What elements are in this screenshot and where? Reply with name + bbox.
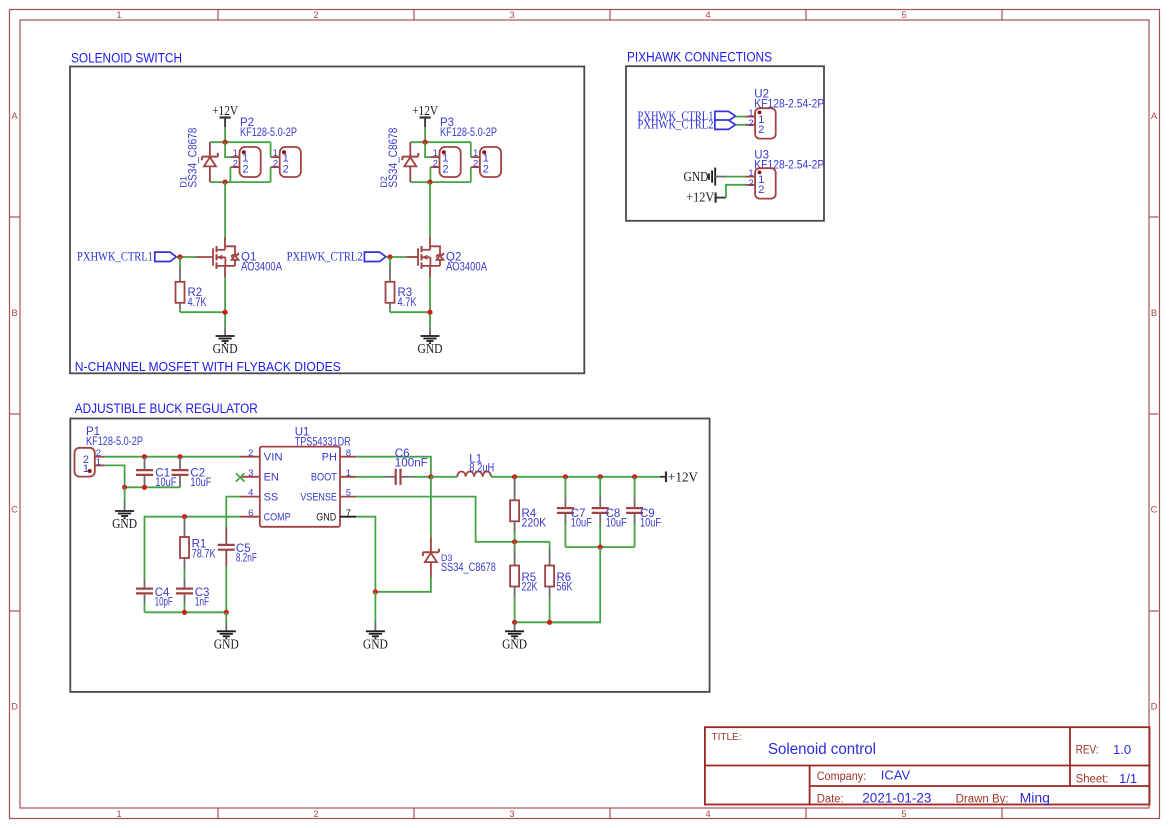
svg-text:VIN: VIN bbox=[264, 452, 283, 464]
svg-text:A: A bbox=[11, 111, 18, 122]
svg-text:8.2nF: 8.2nF bbox=[236, 552, 257, 564]
net flag PXHWK_CTRL2 bbox=[287, 250, 386, 264]
wire R3 to source 2 bbox=[390, 308, 430, 312]
ground GND (compensation) bbox=[214, 612, 239, 651]
capacitor C2 10uF bbox=[172, 457, 212, 489]
wire flag1 to U2 pin1 bbox=[736, 116, 746, 118]
svg-text:KF128-5.0-2P: KF128-5.0-2P bbox=[440, 127, 497, 139]
svg-text:220K: 220K bbox=[522, 517, 547, 529]
wire R6 to gnd bus bbox=[549, 598, 551, 623]
label P1 KF128-5.0-2P bbox=[86, 426, 143, 448]
wire node to D3 bbox=[430, 477, 432, 537]
svg-text:KF128-2.54-2P: KF128-2.54-2P bbox=[754, 160, 824, 172]
ground GND (divider) bbox=[502, 622, 527, 651]
svg-text:10uF: 10uF bbox=[190, 477, 211, 489]
svg-text:10uF: 10uF bbox=[640, 517, 661, 529]
svg-text:PXHWK_CTRL2: PXHWK_CTRL2 bbox=[638, 118, 714, 132]
resistor R3 4.7K bbox=[386, 266, 417, 309]
svg-text:ICAV: ICAV bbox=[881, 768, 911, 783]
pin 8 PH bbox=[322, 448, 357, 464]
node R5 bottom bbox=[512, 620, 517, 625]
svg-text:B: B bbox=[1151, 308, 1157, 319]
svg-text:COMP: COMP bbox=[264, 512, 291, 524]
wire plugA pin1 1 bbox=[225, 142, 230, 157]
svg-text:4: 4 bbox=[705, 809, 710, 820]
svg-text:SS34_C8678: SS34_C8678 bbox=[188, 128, 200, 188]
svg-text:4: 4 bbox=[248, 488, 253, 499]
wire C8 node to gnd bus bbox=[550, 547, 601, 622]
svg-text:2: 2 bbox=[248, 448, 253, 459]
wire COMP left bbox=[145, 517, 241, 579]
wire VSENSE to divider bbox=[356, 497, 549, 542]
node C1 top bbox=[142, 454, 147, 459]
svg-text:2: 2 bbox=[442, 163, 448, 175]
net flag PXHWK_CTRL1 bbox=[77, 250, 176, 264]
svg-text:2: 2 bbox=[273, 158, 278, 169]
node P1 gnd junction bbox=[122, 485, 127, 490]
wire PH to node bbox=[356, 457, 431, 477]
svg-text:78.7K: 78.7K bbox=[192, 549, 216, 561]
wire source 1 bbox=[224, 277, 226, 327]
node source junction 2 bbox=[427, 310, 432, 315]
ground GND (pixhawk, sideways) bbox=[684, 168, 727, 186]
wire gate down 1 bbox=[179, 257, 181, 266]
wire flag2 to U2 pin2 bbox=[736, 124, 746, 126]
net flag PXHWK_CTRL1 (pixhawk) bbox=[638, 109, 736, 123]
wire bottom rail 1 bbox=[210, 181, 271, 183]
svg-text:10uF: 10uF bbox=[571, 517, 592, 529]
resistor R6 56K bbox=[545, 542, 573, 598]
title block bbox=[705, 727, 1150, 805]
wire C3 down bbox=[184, 603, 186, 613]
svg-text:1: 1 bbox=[346, 468, 351, 479]
node C3 bottom bbox=[182, 610, 187, 615]
op-amp U1 TPS54331DR body bbox=[260, 427, 351, 527]
node C2 top bbox=[177, 454, 182, 459]
node R4 top bbox=[512, 474, 517, 479]
wire C1 C2 bottom bbox=[125, 486, 180, 488]
svg-text:SS34_C8678: SS34_C8678 bbox=[441, 562, 496, 574]
wire plugB pin1 1 bbox=[270, 142, 272, 157]
capacitor C5 8.2nF bbox=[218, 527, 257, 566]
svg-text:Ming: Ming bbox=[1020, 790, 1050, 806]
wire gate down 2 bbox=[389, 257, 391, 266]
wire plugA pin2 1 bbox=[229, 167, 231, 182]
ground GND (circuit 1) bbox=[213, 327, 238, 356]
pin 2 VIN bbox=[240, 448, 282, 464]
svg-text:3: 3 bbox=[509, 10, 514, 21]
wire R4 to vsense node bbox=[514, 532, 516, 542]
node gate junction 2 bbox=[387, 254, 392, 259]
node drain junction 1 bbox=[223, 180, 228, 185]
node U1 gnd junction bbox=[373, 589, 378, 594]
svg-text:TPS54331DR: TPS54331DR bbox=[295, 436, 351, 448]
wire plugB pin2 1 bbox=[270, 167, 272, 182]
svg-text:22K: 22K bbox=[522, 582, 538, 594]
node C1 bottom bbox=[142, 485, 147, 490]
svg-text:2: 2 bbox=[748, 178, 753, 189]
svg-text:2: 2 bbox=[433, 158, 438, 169]
power +12V (circuit 1) bbox=[212, 103, 238, 142]
wire D3 to gnd node bbox=[375, 577, 431, 592]
pin 4 SS bbox=[240, 488, 278, 504]
svg-text:2: 2 bbox=[758, 184, 764, 196]
svg-text:ADJUSTIBLE BUCK REGULATOR: ADJUSTIBLE BUCK REGULATOR bbox=[75, 401, 258, 416]
connector P3 plug A bbox=[430, 147, 460, 177]
wire SS to C5 bbox=[226, 497, 240, 527]
svg-text:SOLENOID SWITCH: SOLENOID SWITCH bbox=[71, 51, 182, 66]
svg-text:+12V: +12V bbox=[686, 189, 714, 204]
svg-text:EN: EN bbox=[264, 472, 279, 484]
node gate junction 1 bbox=[177, 254, 182, 259]
transistor Q2 AO3400A bbox=[407, 237, 488, 277]
node C7 top bbox=[563, 474, 568, 479]
connector P3 plug B bbox=[471, 147, 501, 177]
svg-text:Solenoid control: Solenoid control bbox=[768, 741, 876, 758]
svg-text:1.0: 1.0 bbox=[1113, 742, 1131, 757]
svg-text:2: 2 bbox=[283, 163, 289, 175]
svg-text:100nF: 100nF bbox=[395, 458, 428, 470]
wire C5 down bbox=[225, 566, 227, 612]
svg-text:A: A bbox=[1151, 111, 1158, 122]
svg-text:KF128-5.0-2P: KF128-5.0-2P bbox=[86, 436, 143, 448]
svg-text:PXHWK_CTRL2: PXHWK_CTRL2 bbox=[287, 250, 363, 264]
node +12V junction 1 bbox=[223, 140, 228, 145]
ground GND (under P1) bbox=[112, 487, 137, 531]
svg-text:PIXHAWK CONNECTIONS: PIXHAWK CONNECTIONS bbox=[627, 50, 772, 65]
node C8 bottom bbox=[598, 545, 603, 550]
wire plugB pin1 2 bbox=[470, 142, 472, 157]
svg-text:2: 2 bbox=[473, 158, 478, 169]
wire drain 2 bbox=[429, 182, 431, 237]
section box PIXHAWK CONNECTIONS bbox=[626, 50, 824, 221]
svg-text:AO3400A: AO3400A bbox=[446, 262, 487, 274]
svg-text:+12V: +12V bbox=[668, 470, 698, 485]
node +12V junction 2 bbox=[423, 140, 428, 145]
svg-text:Company:: Company: bbox=[817, 771, 867, 783]
power +12V (circuit 2) bbox=[412, 103, 438, 142]
svg-text:56K: 56K bbox=[557, 582, 573, 594]
svg-text:+12V: +12V bbox=[212, 103, 238, 118]
svg-text:C: C bbox=[1151, 505, 1158, 516]
resistor R4 220K bbox=[510, 477, 546, 532]
wire L1 to +12V bbox=[491, 476, 660, 478]
pin 5 VSENSE bbox=[300, 488, 356, 504]
capacitor C7 10uF bbox=[557, 477, 592, 547]
wire flag to gate 1 bbox=[176, 256, 196, 258]
capacitor C6 100nF bbox=[385, 448, 428, 485]
node PH junction bbox=[428, 474, 433, 479]
capacitor C9 10uF bbox=[626, 477, 661, 547]
wire plugB pin2 2 bbox=[470, 167, 472, 182]
svg-text:BOOT: BOOT bbox=[311, 472, 337, 484]
svg-text:1nF: 1nF bbox=[195, 596, 210, 608]
wire R1 to C3 bbox=[184, 570, 186, 579]
svg-text:C: C bbox=[11, 505, 18, 516]
svg-text:GND: GND bbox=[363, 636, 388, 651]
resistor R2 4.7K bbox=[176, 266, 207, 309]
svg-text:2: 2 bbox=[233, 158, 238, 169]
svg-text:3: 3 bbox=[248, 468, 253, 479]
svg-text:Sheet:: Sheet: bbox=[1076, 774, 1109, 786]
svg-text:2: 2 bbox=[313, 10, 318, 21]
label P2 KF128-5.0-2P bbox=[240, 117, 297, 139]
svg-text:6: 6 bbox=[248, 508, 253, 519]
ground GND (circuit 2) bbox=[418, 327, 443, 356]
connector P2 plug A bbox=[230, 147, 260, 177]
connector P2 plug B bbox=[271, 147, 301, 177]
capacitor C3 1nF bbox=[176, 579, 209, 609]
svg-text:3: 3 bbox=[509, 809, 514, 820]
no-connect X on EN bbox=[236, 473, 245, 481]
node C8 top bbox=[598, 474, 603, 479]
svg-text:GND: GND bbox=[112, 516, 137, 531]
pin 3 EN bbox=[240, 468, 279, 484]
resistor R1 78.7K bbox=[180, 517, 216, 570]
wire compensation gnd bus bbox=[145, 611, 227, 613]
svg-text:2: 2 bbox=[758, 124, 764, 136]
wire divider gnd bus bbox=[515, 621, 601, 623]
svg-text:VSENSE: VSENSE bbox=[300, 491, 337, 503]
diode D1 SS34_C8678 bbox=[179, 128, 218, 188]
connector U2 KF128-2.54-2P bbox=[746, 108, 776, 139]
node drain junction 2 bbox=[427, 180, 432, 185]
svg-text:PXHWK_CTRL1: PXHWK_CTRL1 bbox=[77, 250, 153, 264]
svg-text:4: 4 bbox=[705, 10, 710, 21]
net flag PXHWK_CTRL2 (pixhawk) bbox=[638, 118, 736, 132]
svg-text:1: 1 bbox=[96, 457, 101, 468]
svg-text:SS34_C8678: SS34_C8678 bbox=[388, 128, 400, 188]
wire R2 to source 1 bbox=[180, 308, 225, 312]
pin 7 GND bbox=[316, 508, 356, 524]
svg-text:D: D bbox=[1151, 702, 1158, 713]
wire U1 GND pin down bbox=[356, 517, 375, 592]
wire top rail 1 bbox=[210, 141, 271, 143]
svg-text:GND: GND bbox=[502, 636, 527, 651]
node C5 bottom bbox=[224, 610, 229, 615]
node R5 top junction bbox=[512, 539, 517, 544]
svg-text:5: 5 bbox=[346, 488, 351, 499]
svg-text:Date:: Date: bbox=[817, 793, 844, 805]
connector U3 KF128-2.54-2P bbox=[746, 168, 776, 199]
diode D3 SS34_C8678 bbox=[423, 537, 496, 577]
inductor L1 8.2uH bbox=[457, 453, 494, 477]
svg-text:SS: SS bbox=[264, 491, 279, 503]
capacitor C4 10pF bbox=[136, 579, 173, 609]
svg-text:KF128-5.0-2P: KF128-5.0-2P bbox=[240, 127, 297, 139]
svg-text:5: 5 bbox=[901, 10, 906, 21]
svg-text:GND: GND bbox=[418, 341, 443, 356]
svg-text:GND: GND bbox=[213, 341, 238, 356]
svg-text:8: 8 bbox=[346, 448, 351, 459]
power +12V (buck output) bbox=[660, 470, 698, 485]
svg-text:GND: GND bbox=[316, 512, 336, 524]
svg-text:2: 2 bbox=[483, 163, 489, 175]
wire +12V to U3 pin2 bbox=[726, 185, 746, 198]
svg-text:N-CHANNEL MOSFET WITH FLYBACK: N-CHANNEL MOSFET WITH FLYBACK DIODES bbox=[75, 359, 341, 374]
wire node to L1 bbox=[431, 476, 457, 478]
svg-text:1/1: 1/1 bbox=[1119, 771, 1137, 786]
section box SOLENOID SWITCH bbox=[70, 51, 584, 375]
svg-text:8.2uH: 8.2uH bbox=[469, 463, 494, 475]
ground GND (U1) bbox=[363, 592, 388, 652]
pin 6 COMP bbox=[240, 508, 290, 524]
wire plugA pin2 2 bbox=[429, 167, 431, 182]
node C9 top bbox=[632, 474, 637, 479]
svg-text:4.7K: 4.7K bbox=[188, 297, 207, 309]
wire BOOT to C6 bbox=[356, 476, 385, 478]
diode D2 SS34_C8678 bbox=[379, 128, 418, 188]
capacitor C8 10uF bbox=[592, 477, 627, 547]
node R6 bottom bbox=[547, 620, 552, 625]
svg-text:2: 2 bbox=[313, 809, 318, 820]
wire C7-C9 bottom bus bbox=[565, 546, 634, 548]
svg-text:TITLE:: TITLE: bbox=[712, 732, 742, 743]
power +12V (pixhawk, sideways) bbox=[686, 189, 726, 204]
label P3 KF128-5.0-2P bbox=[440, 117, 497, 139]
wire plugA pin1 2 bbox=[425, 142, 430, 157]
svg-text:PH: PH bbox=[322, 452, 337, 464]
svg-text:2021-01-23: 2021-01-23 bbox=[862, 791, 931, 806]
svg-text:5: 5 bbox=[901, 809, 906, 820]
label U3 KF128-2.54-2P bbox=[754, 150, 824, 172]
svg-text:REV:: REV: bbox=[1076, 745, 1099, 757]
svg-text:GND: GND bbox=[684, 169, 709, 184]
wire flag to gate 2 bbox=[386, 256, 407, 258]
transistor Q1 AO3400A bbox=[197, 237, 283, 277]
wire bottom rail 2 bbox=[410, 181, 471, 183]
pin 1 BOOT bbox=[311, 468, 356, 484]
svg-text:10pF: 10pF bbox=[155, 596, 173, 608]
svg-text:2: 2 bbox=[242, 163, 248, 175]
svg-text:1: 1 bbox=[116, 809, 121, 820]
resistor R5 22K bbox=[510, 542, 538, 598]
label U2 KF128-2.54-2P bbox=[754, 89, 824, 111]
wire R5 to gnd bus bbox=[514, 598, 516, 623]
wire top rail 2 bbox=[410, 141, 471, 143]
wire P1 pin1 down bbox=[105, 465, 125, 487]
wire P1 pin2 to VIN bbox=[105, 456, 241, 458]
svg-text:1: 1 bbox=[116, 10, 121, 21]
capacitor C1 10uF bbox=[136, 457, 176, 489]
node source junction 1 bbox=[223, 310, 228, 315]
svg-text:10uF: 10uF bbox=[606, 517, 627, 529]
svg-text:D: D bbox=[11, 702, 18, 713]
wire C6 to node bbox=[414, 476, 431, 478]
svg-text:2: 2 bbox=[748, 118, 753, 129]
wire drain 1 bbox=[224, 182, 226, 237]
svg-text:B: B bbox=[11, 308, 17, 319]
svg-text:7: 7 bbox=[346, 508, 351, 519]
section box ADJUSTIBLE BUCK REGULATOR bbox=[70, 401, 709, 692]
wire GND to U3 pin1 bbox=[726, 176, 746, 178]
svg-text:+12V: +12V bbox=[412, 103, 438, 118]
wire C4 down bbox=[144, 603, 146, 613]
connector P1 bbox=[75, 448, 105, 477]
svg-text:4.7K: 4.7K bbox=[398, 297, 417, 309]
node R1 top bbox=[182, 514, 187, 519]
svg-text:1: 1 bbox=[83, 463, 89, 475]
svg-text:Drawn By:: Drawn By: bbox=[956, 793, 1009, 805]
svg-text:AO3400A: AO3400A bbox=[241, 262, 282, 274]
svg-text:GND: GND bbox=[214, 636, 239, 651]
wire source 2 bbox=[429, 277, 431, 327]
